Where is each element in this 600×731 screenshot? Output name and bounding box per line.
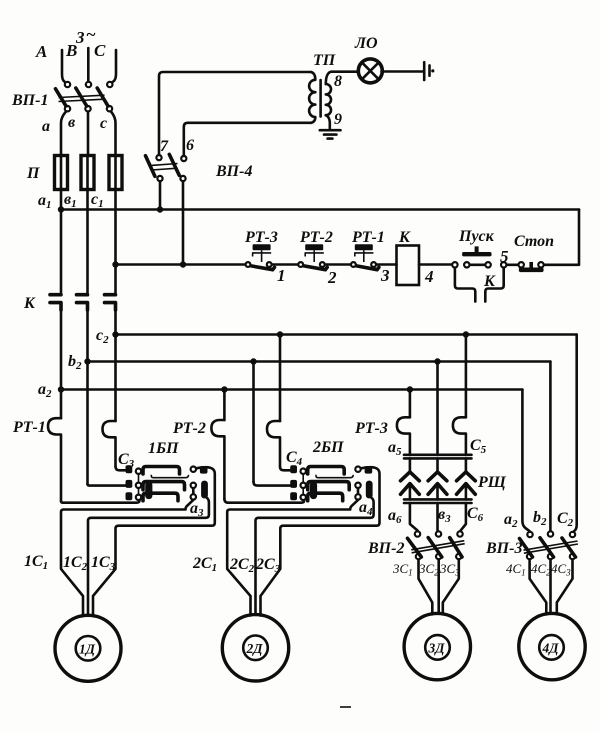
switch VP-4 pole 6: [169, 154, 186, 181]
switch VP-2 linkage: [411, 541, 465, 553]
switch VP-2 pole 2: [428, 531, 442, 559]
wire 2BP out 2C3: [261, 467, 380, 615]
wire a2 bus riser to VP-3: [522, 390, 529, 532]
wire RSh a to VP-2: [410, 503, 418, 531]
junction dot c2 to 2BP: [277, 331, 283, 337]
wire secondary bottom to ground: [326, 115, 330, 128]
junction dot b2 to 2BP: [250, 358, 256, 364]
wire top control feeder y210 from phase a to right edge: [61, 208, 579, 211]
junction dot a2 to RT-3a: [407, 386, 413, 392]
relay RT-2 thermal element: [305, 244, 324, 262]
transformer TP primary winding: [309, 72, 315, 123]
wire b2 drop to RSh middle: [436, 362, 439, 456]
wire b2 drop to 2BP: [252, 362, 255, 482]
socket RSh pole b jaws and pin: [428, 458, 447, 499]
wire c2 drop into 2BP row1: [280, 467, 291, 471]
connector 2BP body: [290, 465, 372, 501]
wire 1BP out 1C2: [88, 497, 209, 616]
wire 1BP out 1C3: [93, 467, 215, 616]
svg-text:Пуск: Пуск: [458, 228, 495, 245]
motor 3D: [404, 613, 470, 679]
wire RT-1 to coil K: [376, 263, 396, 266]
motor 4D: [519, 613, 585, 679]
svg-text:В: В: [65, 41, 77, 60]
lamp LO: [358, 59, 382, 83]
wire 1BP out 1C1: [61, 500, 193, 616]
wire 2BP out 2C2: [256, 497, 374, 615]
junction dot VP-4 pole6 drop: [180, 261, 186, 267]
relay RT-1 thermal element: [354, 244, 373, 262]
svg-text:7: 7: [160, 138, 169, 155]
wire 4C2 to motor 4D: [549, 560, 552, 614]
svg-text:РТ-3: РТ-3: [244, 229, 278, 246]
wire phase a into 1BP row3: [61, 500, 140, 502]
wire a2 drop to RT-2a heater: [223, 390, 226, 421]
button Pusk bar: [462, 246, 491, 256]
wire phase a from fuse to K contact: [60, 189, 63, 295]
svg-text:2БП: 2БП: [312, 439, 344, 456]
svg-text:8: 8: [334, 73, 342, 90]
button Stop contacts: [519, 262, 544, 272]
wire 3C2 to motor 3D: [437, 560, 440, 614]
svg-text:2: 2: [327, 268, 337, 287]
svg-text:ЛО: ЛО: [354, 35, 378, 52]
svg-text:РЩ: РЩ: [477, 474, 507, 491]
wire c2 drop to RT-2c heater: [279, 335, 282, 422]
wire phase b into 1BP row2: [88, 484, 127, 486]
contactor K main contact pole a: [50, 295, 61, 310]
wire c2 drop to RT-3c heater: [465, 335, 468, 418]
junction dot c2 start: [112, 331, 118, 337]
contactor K main contact pole b: [77, 295, 88, 310]
junction dot a1/feeder: [58, 206, 64, 212]
junction dot a2 start: [58, 386, 64, 392]
motor 2D: [222, 615, 288, 681]
junction dot VP-4 pole7 drop: [157, 206, 163, 212]
node 3~ supply label: [75, 25, 96, 47]
wire 2BP out 2C1: [227, 500, 358, 616]
switch VP-2 pole 1: [408, 531, 422, 559]
motor 1D: [55, 615, 121, 681]
switch VP-1 pole 2: [76, 82, 91, 112]
svg-text:с: с: [100, 115, 107, 132]
svg-text:6: 6: [186, 137, 194, 154]
svg-text:РТ-1: РТ-1: [12, 419, 46, 436]
svg-text:С: С: [94, 41, 106, 60]
wire phase b from fuse to K contact: [86, 189, 89, 295]
wire VP-4 pole6 up to transformer primary bottom: [184, 123, 311, 156]
relay RT-3 heater phase c: [453, 417, 466, 455]
svg-text:ТП: ТП: [313, 52, 336, 69]
socket RSh pole a jaws and pin: [401, 458, 420, 499]
connector 1BP body: [126, 465, 208, 501]
svg-text:РТ-1: РТ-1: [351, 229, 385, 246]
wire 4C1 to motor 4D: [530, 560, 547, 615]
svg-text:ВП-1: ВП-1: [11, 92, 48, 109]
svg-text:Стоп: Стоп: [514, 233, 554, 250]
wire phase c into 1BP row1: [116, 467, 127, 471]
junction dot b2 start: [84, 358, 90, 364]
wire lamp to chassis: [382, 70, 424, 73]
contact K self-holding left leg: [455, 268, 475, 302]
svg-text:ВП-2: ВП-2: [367, 540, 404, 557]
bus a2: [61, 388, 522, 391]
wire 3C3 to motor 3D: [443, 560, 459, 615]
relay contact RT-3: [246, 262, 275, 270]
relay contact RT-1: [351, 262, 379, 270]
bus b2: [88, 360, 551, 363]
switch VP-4 linkage bar: [152, 164, 178, 171]
wire VP-4 pole6 down to control line: [182, 181, 185, 265]
svg-text:9: 9: [334, 111, 342, 128]
ground under transformer: [320, 130, 341, 138]
chassis terminal symbol: [424, 62, 434, 80]
relay RT-3 thermal element: [252, 244, 271, 262]
switch VP-3 pole 3: [562, 532, 576, 559]
switch VP-4 pole 7: [146, 155, 163, 181]
relay RT-2 heater phase a: [211, 420, 224, 499]
wire b2 drop into 2BP row2: [254, 482, 291, 486]
svg-text:5: 5: [500, 247, 509, 266]
wire VP-1 pole3 to fuse 3: [111, 112, 116, 157]
svg-text:1: 1: [277, 266, 286, 285]
wire RSh c to VP-2: [461, 503, 466, 531]
wire VP-1 pole2 to fuse 2: [87, 112, 90, 156]
svg-text:РТ-2: РТ-2: [172, 420, 206, 437]
svg-text:РТ-3: РТ-3: [354, 420, 388, 437]
wire phase c from fuse to K contact: [114, 189, 117, 295]
svg-text:РТ-2: РТ-2: [299, 229, 333, 246]
switch VP-1 pole 3: [97, 82, 112, 112]
wire phase A drop to VP-1: [62, 50, 65, 82]
wire a2 drop to RT-3a heater: [409, 390, 412, 418]
wire control line y264 from phase c to RT-3: [116, 263, 246, 266]
wire phase C drop to VP-1: [113, 50, 116, 82]
wire coil K to Pusk: [419, 263, 452, 266]
wire VP-1 pole1 to fuse 1: [61, 112, 66, 157]
svg-text:3: 3: [380, 266, 390, 285]
switch VP-3 linkage: [524, 541, 578, 553]
svg-text:4Д: 4Д: [542, 641, 560, 656]
relay RT-2 heater phase c: [267, 421, 280, 467]
svg-text:2Д: 2Д: [246, 641, 264, 656]
junction dot b2 to RSh: [434, 358, 440, 364]
relay RT-3 heater phase a: [397, 417, 410, 455]
svg-text:3Д: 3Д: [428, 641, 446, 656]
wire a2 drop into 2BP row3: [224, 499, 304, 503]
switch VP-2 pole 3: [450, 531, 463, 559]
switch VP-1 linkage bar: [59, 95, 105, 101]
relay RT-1 heater phase a: [48, 418, 61, 501]
wire phase c K to bus c2 and heater RT-1c: [114, 308, 117, 421]
wire VP-4 pole7 down to feeder: [159, 181, 162, 210]
wire Pusk to Stop: [507, 263, 519, 266]
fuse F2: [81, 155, 94, 190]
svg-text:К: К: [483, 273, 496, 290]
junction dot a2 to 2BP: [221, 386, 227, 392]
svg-text:П: П: [26, 165, 40, 182]
wire RSh b to VP-2: [436, 503, 439, 532]
wire Stop to right edge riser: [544, 210, 579, 265]
svg-text:4: 4: [424, 267, 434, 286]
svg-text:а: а: [42, 118, 50, 135]
svg-text:А: А: [35, 42, 47, 61]
wire 4C3 to motor 4D: [557, 560, 573, 615]
svg-text:1БП: 1БП: [148, 440, 179, 457]
wire phase b K to bus b2: [86, 308, 89, 484]
relay contact RT-2: [298, 262, 327, 270]
button Pusk contacts: [452, 262, 506, 267]
socket RSh bottom rails: [404, 499, 472, 503]
wire 3C1 to motor 3D: [419, 560, 433, 615]
fuse F1: [55, 155, 68, 190]
page mark dash: [340, 706, 351, 708]
wire secondary top to lamp: [326, 72, 358, 84]
switch VP-3 pole 1: [520, 532, 533, 559]
wire c2 bus riser to VP-3: [574, 335, 577, 532]
transformer TP core: [319, 80, 322, 117]
wire RT-2 to RT-1: [325, 263, 351, 266]
transformer TP secondary winding: [326, 84, 331, 115]
junction dot c2 to RT-3c: [463, 331, 469, 337]
relay RT-1 heater phase c: [103, 421, 116, 467]
socket RSh pole c jaws and pin: [457, 458, 476, 499]
svg-text:К: К: [398, 229, 411, 246]
wire VP-4 pole7 up to transformer primary top: [159, 72, 311, 155]
wire b2 bus riser to VP-3: [549, 362, 552, 532]
bus c2: [116, 333, 577, 336]
contactor K main contact pole c: [105, 295, 116, 310]
wire phase B drop to VP-1: [87, 48, 90, 81]
svg-text:ВП-3: ВП-3: [485, 540, 522, 557]
svg-text:1Д: 1Д: [79, 642, 96, 657]
fuse F3: [109, 155, 122, 190]
svg-text:К: К: [23, 295, 36, 312]
svg-text:в: в: [68, 114, 75, 131]
socket RSh top rails: [404, 455, 472, 459]
contactor coil K: [397, 246, 420, 286]
svg-text:ВП-4: ВП-4: [215, 163, 252, 180]
wire phase a K to bus a2 and heater RT-1a: [60, 308, 63, 418]
junction dot control line on phase c: [112, 261, 118, 267]
switch VP-1 pole 1: [56, 82, 71, 112]
switch VP-3 pole 2: [540, 531, 554, 559]
contact K self-holding right leg: [485, 268, 503, 302]
wire RT-3 to RT-2: [272, 263, 298, 266]
